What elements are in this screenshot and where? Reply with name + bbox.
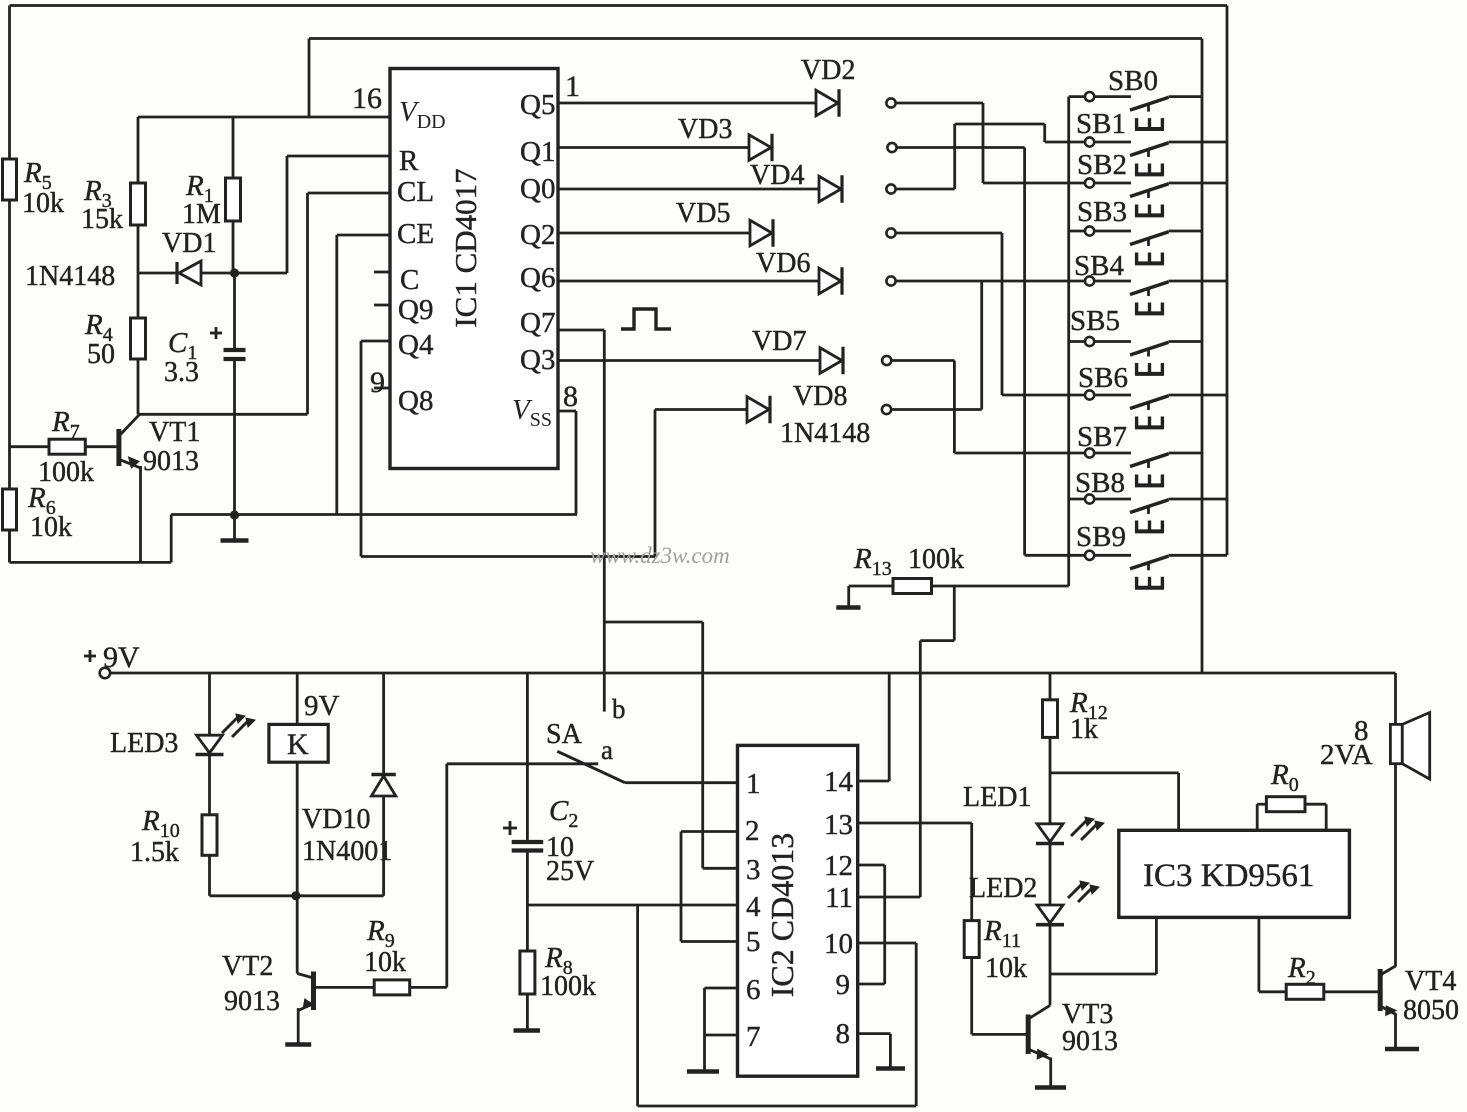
svg-text:7: 7: [746, 1021, 761, 1053]
svg-text:9: 9: [370, 366, 385, 399]
op-amp U3 IC3 KD9561 box: [1119, 830, 1350, 917]
wire R13 right to button bus: [932, 585, 1069, 588]
wire R7 left to border: [10, 445, 50, 448]
transistor VT4: [1378, 969, 1383, 1011]
wire button common bus: [1067, 97, 1070, 586]
wire inner loop right bus: [1201, 39, 1204, 674]
wire CE pin to ground rail: [337, 234, 390, 237]
led LED1 arrows: [1071, 820, 1087, 836]
svg-text:Q0: Q0: [520, 173, 555, 205]
svg-text:Q4: Q4: [398, 329, 434, 361]
op-amp U1 IC1 CD4017 box: [390, 69, 558, 469]
diode VD3: [749, 135, 771, 161]
wire IC2 pin11: [858, 896, 921, 899]
svg-text:10k: 10k: [30, 512, 72, 543]
capacitor C2: [526, 673, 529, 840]
svg-text:3: 3: [746, 854, 761, 886]
diode VD8: [747, 397, 769, 423]
diode VD6: [819, 268, 841, 294]
wire K to junction: [296, 762, 299, 896]
relay K coil: [269, 724, 328, 762]
svg-text:VD5: VD5: [676, 198, 730, 229]
svg-text:SB6: SB6: [1078, 362, 1128, 394]
svg-text:9013: 9013: [143, 446, 199, 477]
wire IC2 pins 12-9 strap: [858, 864, 885, 867]
wire junction to VT2 collector: [296, 896, 299, 974]
wire Q2 row: [558, 232, 750, 235]
switch SB3: [1069, 230, 1085, 233]
switch SA blade: [557, 751, 625, 782]
wire VD1 node to R4: [137, 273, 140, 318]
speaker BL: [1390, 724, 1402, 763]
wire pin4 node to pin10 loop: [636, 905, 639, 1106]
svg-text:1: 1: [746, 768, 761, 800]
wire Q4 pin to VD8 route: [361, 340, 390, 343]
resistor R0: [1266, 797, 1305, 812]
ground for VT3: [1035, 1085, 1066, 1090]
wire C2 to IC2 pin4: [527, 904, 737, 907]
svg-text:1: 1: [565, 70, 580, 103]
resistor R8: [520, 951, 535, 994]
svg-text:Q2: Q2: [520, 219, 555, 251]
led LED3: [208, 673, 211, 735]
wire VD7 to SB7 row: [891, 359, 954, 362]
switch SB7: [1085, 448, 1094, 457]
wire outer loop left border upper: [8, 6, 11, 160]
ground for R8: [526, 994, 529, 1029]
ground for IC2 pin7: [703, 1035, 706, 1070]
resistor R4: [131, 318, 146, 359]
svg-text:VT2: VT2: [222, 951, 273, 982]
svg-text:1M: 1M: [182, 199, 221, 230]
svg-text:C: C: [400, 264, 419, 296]
wire outer loop left border mid: [8, 200, 11, 446]
svg-text:CE: CE: [397, 218, 434, 250]
svg-text:100k: 100k: [38, 457, 94, 488]
wire VD2 to SB2 row: [896, 102, 984, 105]
svg-text:R: R: [399, 145, 419, 177]
svg-text:a: a: [601, 735, 613, 765]
wire R12 to LED1: [1049, 737, 1052, 823]
svg-text:12: 12: [824, 850, 853, 882]
pulse waveform symbol: [621, 309, 671, 329]
svg-text:VD8: VD8: [793, 381, 847, 412]
wire LED1 node to IC3: [1050, 772, 1179, 775]
wire SA to IC2 pin1: [625, 781, 738, 784]
diode VD7: [820, 348, 842, 374]
resistor R1: [226, 178, 241, 221]
resistor R5: [3, 159, 17, 200]
svg-text:1N4148: 1N4148: [25, 261, 115, 292]
svg-text:2: 2: [745, 815, 760, 847]
wire Q5 row: [558, 102, 816, 105]
svg-text:14: 14: [824, 766, 854, 798]
svg-text:VD6: VD6: [756, 248, 810, 279]
ground for C1: [233, 515, 236, 541]
wire Q6 row: [558, 280, 819, 283]
svg-text:6: 6: [746, 974, 761, 1006]
node VD4 terminal: [886, 184, 895, 193]
wire IC2 pin13 to R11: [858, 822, 972, 825]
svg-text:9V: 9V: [103, 641, 140, 674]
wire outer loop left border lower: [8, 446, 11, 489]
svg-text:100k: 100k: [908, 544, 964, 575]
svg-text:5: 5: [746, 926, 761, 958]
wire R3 top to VDD rail: [137, 117, 140, 183]
wire R3 bottom to VD1 node: [137, 225, 140, 273]
transistor VT1: [85, 445, 119, 448]
svg-text:SB8: SB8: [1075, 467, 1125, 499]
wire R10 bottom: [208, 855, 211, 896]
wire R9 to SA: [410, 986, 447, 989]
resistor R9: [374, 980, 410, 995]
diode VD5: [750, 220, 772, 246]
svg-text:1k: 1k: [1070, 714, 1098, 745]
resistor R12: [1043, 700, 1058, 738]
wire inner loop left drop to pin16: [308, 39, 311, 118]
svg-text:SB3: SB3: [1077, 196, 1127, 228]
node VD1-R1-C1 junction: [230, 268, 239, 277]
wire VT3 collector to IC3: [1050, 973, 1156, 976]
svg-text:CL: CL: [397, 176, 434, 208]
wire IC2 pins 2-5 strap: [681, 830, 738, 833]
wire outer loop top border: [10, 4, 1228, 7]
switch SB4: [1085, 276, 1094, 285]
svg-text:b: b: [612, 694, 626, 724]
svg-text:1N4148: 1N4148: [780, 418, 870, 449]
svg-text:Q6: Q6: [520, 262, 555, 294]
svg-text:9V: 9V: [304, 690, 340, 722]
wire R11 to VT3 base: [970, 958, 973, 1035]
svg-text:1N4001: 1N4001: [302, 836, 392, 867]
label +9V: [84, 655, 96, 658]
wire SA contact a line: [447, 762, 598, 765]
node +9V terminal: [100, 668, 110, 678]
wire VD8 riser to SB4 row: [891, 408, 982, 411]
label C1 polarity plus: [210, 332, 222, 335]
op-amp U2 IC2 CD4013 box: [738, 745, 858, 1076]
diode VD10: [382, 673, 385, 773]
switch SB5: [1069, 340, 1085, 343]
svg-text:100k: 100k: [540, 971, 596, 1002]
led LED1: [1037, 824, 1063, 842]
svg-text:VT4: VT4: [1405, 966, 1456, 997]
wire R4 bottom to VT1 collector node: [137, 359, 140, 414]
switch SB9: [1085, 551, 1094, 560]
wire ground rail: [171, 513, 577, 516]
node VD8 terminal: [882, 405, 891, 414]
svg-text:13: 13: [824, 809, 853, 841]
svg-text:8: 8: [836, 1018, 851, 1050]
svg-text:SB2: SB2: [1077, 149, 1127, 181]
svg-text:3.3: 3.3: [164, 357, 199, 388]
svg-text:SB4: SB4: [1074, 250, 1124, 282]
svg-text:VD4: VD4: [750, 160, 804, 191]
ground for VT4: [1385, 1047, 1419, 1051]
wire Q3 row: [558, 359, 820, 362]
svg-text:VD1: VD1: [162, 228, 216, 259]
svg-text:Q3: Q3: [520, 344, 555, 376]
switch SB0: [1069, 95, 1085, 98]
ground for R13: [836, 605, 860, 609]
svg-text:Q8: Q8: [398, 385, 433, 417]
node K coil junction: [291, 891, 300, 900]
svg-text:10k: 10k: [985, 953, 1027, 984]
wire R pin to VD1 node: [287, 155, 390, 158]
wire Q0 row: [558, 188, 819, 191]
label C2 polarity plus: [503, 827, 517, 830]
svg-text:9013: 9013: [1062, 1026, 1118, 1057]
wire VSS to ground rail: [558, 410, 576, 413]
svg-text:VD7: VD7: [752, 326, 806, 357]
svg-text:IC1 CD4017: IC1 CD4017: [448, 168, 483, 327]
wire SB9 row from VD3: [1025, 554, 1085, 557]
wire Q7 branch to IC2 pin3: [604, 621, 702, 624]
svg-text:16: 16: [352, 82, 382, 115]
node VD5 terminal: [886, 228, 895, 237]
wire inner loop top border: [309, 37, 1202, 40]
svg-text:SB5: SB5: [1070, 305, 1120, 337]
led LED3 arrows: [222, 717, 238, 733]
wire Q1 row: [558, 146, 749, 149]
wire IC2 pin14 to rail: [858, 780, 890, 783]
diode VD2: [816, 90, 838, 116]
wire CL pin to collector line: [308, 192, 391, 195]
led LED2: [1037, 905, 1063, 923]
svg-text:LED3: LED3: [110, 728, 178, 759]
svg-text:VD10: VD10: [302, 804, 370, 835]
svg-text:10k: 10k: [22, 188, 64, 219]
wire LED3 R10 K VD10 common: [210, 894, 384, 897]
wire VD5 to SB6 row: [896, 232, 1003, 235]
wire +9V rail: [110, 672, 1395, 675]
ground for IC2 pin8: [858, 1032, 891, 1035]
diode VD4: [819, 176, 841, 202]
node VD6 terminal: [886, 276, 895, 285]
svg-text:11: 11: [825, 882, 853, 914]
svg-text:10k: 10k: [364, 947, 406, 978]
svg-text:Q5: Q5: [520, 89, 555, 121]
svg-text:Q9: Q9: [398, 294, 433, 326]
wire R13 left to ground: [849, 585, 893, 588]
wire IC2 pin10: [858, 942, 917, 945]
svg-text:IC3 KD9561: IC3 KD9561: [1143, 858, 1314, 894]
svg-text:Q7: Q7: [520, 307, 555, 339]
svg-text:25V: 25V: [546, 856, 594, 887]
svg-text:SB1: SB1: [1076, 108, 1126, 140]
svg-text:8050: 8050: [1403, 995, 1459, 1026]
wire VD6 to SB4 row: [896, 280, 1086, 283]
svg-text:SB9: SB9: [1076, 521, 1126, 553]
svg-text:15k: 15k: [81, 204, 123, 235]
wire R1 top to VDD rail: [232, 117, 235, 178]
ground for VT2: [285, 1042, 311, 1046]
wire Q7 down to node b: [558, 329, 604, 332]
svg-text:2VA: 2VA: [1320, 739, 1373, 771]
resistor R7: [49, 439, 85, 454]
resistor R13: [893, 579, 932, 594]
resistor R11: [964, 921, 979, 958]
wire bottom left return: [8, 530, 11, 562]
wire Q4 VD8 row: [655, 408, 747, 411]
svg-text:VD2: VD2: [801, 55, 855, 86]
switch SB2: [1085, 178, 1094, 187]
svg-text:1.5k: 1.5k: [130, 837, 179, 868]
resistor R3: [131, 183, 146, 225]
wire collector line: [138, 413, 308, 416]
svg-text:VD3: VD3: [678, 114, 732, 145]
wire outer loop right bus: [1226, 6, 1229, 556]
led LED2 arrows: [1068, 884, 1082, 898]
svg-text:IC2 CD4013: IC2 CD4013: [764, 833, 800, 997]
svg-text:LED1: LED1: [963, 782, 1031, 813]
svg-text:Q1: Q1: [520, 136, 555, 168]
svg-text:VT1: VT1: [149, 417, 200, 448]
wire rail to K: [296, 673, 299, 724]
resistor R10: [202, 815, 217, 856]
svg-text:50: 50: [87, 339, 115, 370]
svg-text:10: 10: [824, 928, 853, 960]
svg-text:SB0: SB0: [1108, 65, 1158, 97]
resistor R2: [1286, 984, 1324, 999]
svg-text:www.dz3w.com: www.dz3w.com: [590, 543, 730, 568]
diode VD1: [138, 272, 287, 275]
node C1 ground junction: [230, 510, 239, 519]
wire R1 bottom to VD1 node: [232, 221, 235, 273]
svg-text:LED2: LED2: [969, 873, 1037, 904]
svg-text:9: 9: [836, 969, 851, 1001]
wire IC2 pins 6-7 strap: [705, 987, 738, 990]
transistor VT2: [297, 974, 313, 979]
wire IC3 out to R2: [1258, 917, 1261, 991]
svg-text:8: 8: [563, 380, 578, 413]
svg-text:4: 4: [746, 891, 761, 923]
transistor VT3: [1026, 1015, 1031, 1055]
wire speaker line: [1394, 673, 1397, 967]
svg-text:K: K: [287, 728, 309, 761]
svg-text:9013: 9013: [224, 986, 280, 1017]
svg-text:SA: SA: [546, 719, 583, 750]
svg-text:SB7: SB7: [1077, 421, 1127, 453]
switch SB1: [1085, 137, 1094, 146]
switch SB6: [1085, 390, 1094, 399]
resistor R6: [3, 489, 17, 530]
node VD7 terminal: [882, 356, 891, 365]
node VD3 terminal: [887, 143, 896, 152]
switch SB8: [1069, 498, 1085, 501]
wire R13 to IC2 pin11: [953, 586, 956, 641]
node VD2 terminal: [886, 98, 895, 107]
wire VD3 to SB9 row: [897, 146, 1025, 149]
wire VDD pin16 rail: [138, 116, 390, 119]
capacitor C1: [233, 273, 236, 348]
wire VD4 to SB1 row: [896, 188, 955, 191]
